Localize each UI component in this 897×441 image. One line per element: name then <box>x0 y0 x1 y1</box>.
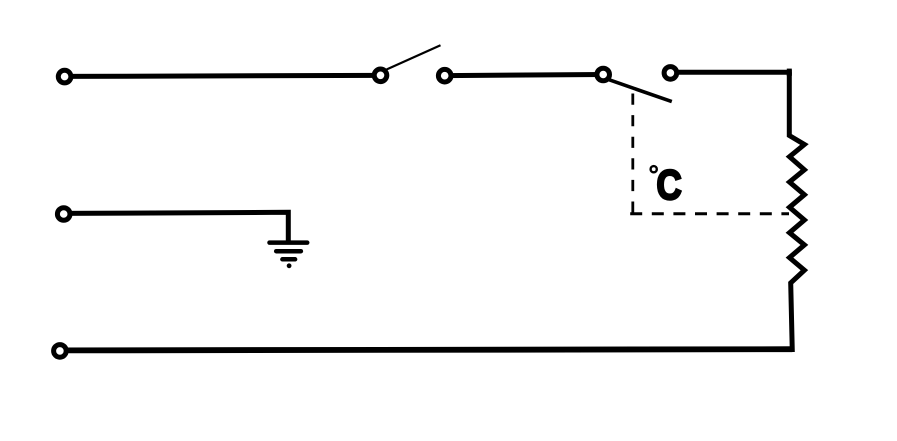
wire bottom (right corner to bottom-left terminal) <box>60 349 792 350</box>
terminal T1 top-left <box>58 70 71 83</box>
terminal T2 middle-left <box>57 208 70 221</box>
switch S1 blade <box>387 45 441 69</box>
resistor R1 (heater element zigzag) with leads <box>789 72 804 352</box>
switch S1 contact a <box>374 69 387 82</box>
wire between S1 and S2 <box>445 75 604 76</box>
corner tick <box>787 69 792 76</box>
wire middle-left (terminal to ground stem corner) <box>64 212 289 242</box>
dashed linkage horizontal (to resistor) <box>630 212 789 215</box>
switch S2 contact a <box>597 68 610 81</box>
dashed linkage vertical (thermostat to sensor) <box>631 94 634 213</box>
svg-text:C: C <box>657 162 682 209</box>
ground bar 2 <box>276 249 301 254</box>
switch S2 blade (thermostat contact) <box>609 80 672 102</box>
ground bar 1 <box>270 240 308 245</box>
terminal T3 bottom-left <box>54 345 67 358</box>
ground dot <box>287 263 292 268</box>
wire top-right (S2 to right corner) <box>670 70 791 75</box>
label degree symbol <box>651 166 657 172</box>
switch S2 contact b <box>664 67 677 80</box>
ground bar 3 <box>282 257 295 262</box>
wire top-left (terminal to switch S1) <box>65 75 381 76</box>
switch S1 contact b <box>438 69 451 82</box>
